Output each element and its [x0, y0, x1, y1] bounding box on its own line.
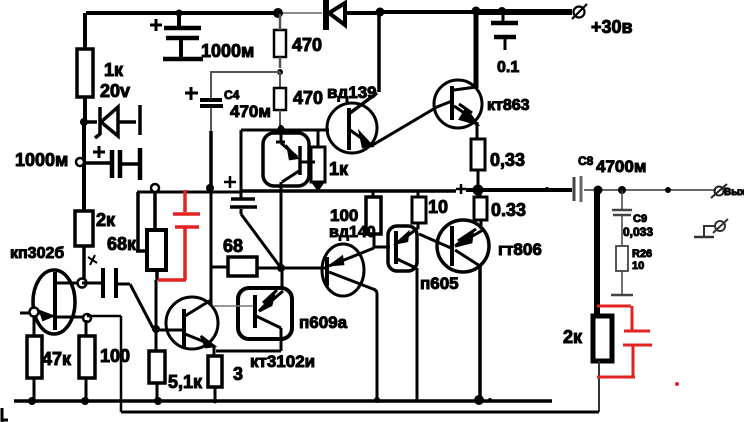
capacitor 1000м top	[150, 13, 203, 59]
resistor 3	[208, 356, 222, 401]
svg-text:R26: R26	[632, 248, 652, 260]
svg-text:10: 10	[428, 197, 448, 217]
svg-text:+30в: +30в	[591, 17, 633, 37]
resistor 100 mid	[366, 191, 390, 247]
svg-text:470: 470	[292, 35, 322, 55]
wire base bus kt3102	[155, 280, 158, 350]
mark corner bottom left	[2, 408, 8, 422]
resistor 47к	[27, 316, 42, 401]
resistor 1к mid	[311, 130, 325, 190]
wire driver diagonal	[371, 101, 452, 146]
node source	[83, 314, 91, 322]
node bottom A	[28, 397, 36, 405]
node top rail B	[273, 8, 283, 18]
svg-text:1к: 1к	[329, 159, 349, 179]
svg-text:100: 100	[100, 346, 130, 366]
wire left bus	[82, 122, 86, 211]
svg-text:C8: C8	[578, 154, 594, 168]
transistor Q1 кп302б	[20, 270, 85, 334]
wire п605 to гт806 base	[419, 234, 451, 248]
wire base link	[157, 329, 183, 332]
svg-text:Вых: Вых	[724, 187, 744, 198]
transistor Q8 п605	[388, 226, 418, 400]
node mid rail open	[151, 184, 159, 192]
svg-text:1000м: 1000м	[15, 150, 68, 170]
capacitor bias below rail	[224, 176, 281, 268]
node bottom B	[81, 397, 89, 405]
svg-text:10: 10	[632, 260, 644, 272]
wire collector bus	[210, 191, 213, 306]
svg-text:20v: 20v	[100, 81, 130, 101]
mark x on wire	[88, 255, 97, 265]
svg-text:0,033: 0,033	[623, 225, 653, 239]
node 470 junction	[277, 69, 283, 75]
svg-text:п609а: п609а	[299, 313, 348, 332]
svg-text:470м: 470м	[230, 102, 271, 121]
transistor Q9 гт806	[437, 220, 489, 400]
svg-text:1000м: 1000м	[201, 41, 254, 61]
transistor Q5 кт863	[434, 80, 482, 128]
transistor Q3 rounded upper	[263, 125, 315, 268]
svg-text:47к: 47к	[42, 349, 72, 369]
wire collector kt863	[474, 13, 479, 88]
terminal +30v	[572, 4, 587, 19]
node top rail E	[498, 7, 506, 15]
svg-text:2к: 2к	[563, 327, 583, 347]
terminal bracket	[694, 219, 728, 237]
transistor Q2 кт3102и	[166, 297, 218, 356]
svg-text:C9: C9	[633, 213, 647, 225]
wire C4 top link	[211, 72, 280, 99]
wire C4 lead lower	[209, 131, 213, 187]
node mid rail C4	[206, 184, 214, 192]
wire bottom feedback line	[121, 411, 599, 414]
wire top rail left	[86, 11, 322, 15]
resistor R26	[616, 246, 628, 294]
wire bottom rail	[14, 399, 552, 403]
svg-text:5,1к: 5,1к	[168, 372, 203, 392]
capacitor C4 470м	[185, 87, 223, 131]
svg-text:0,33: 0,33	[490, 150, 525, 170]
resistor 10	[412, 191, 426, 229]
svg-text:3: 3	[233, 364, 243, 384]
resistor 470 upper	[274, 14, 286, 68]
resistor 100 bottom	[79, 320, 95, 401]
svg-text:гт806: гт806	[498, 240, 542, 259]
ground R26	[611, 294, 633, 297]
node bottom C	[154, 397, 162, 405]
svg-text:п605: п605	[420, 274, 459, 293]
svg-text:100: 100	[330, 206, 358, 225]
svg-text:470: 470	[293, 88, 323, 108]
resistor 5,1к	[149, 350, 165, 401]
resistor 0.33 lower	[474, 190, 487, 229]
wire feedback source	[87, 316, 121, 412]
node mid rail tick	[545, 187, 549, 191]
wire base wire upper tr	[241, 129, 329, 132]
node bottom F	[474, 395, 484, 405]
svg-text:кт863: кт863	[487, 97, 530, 114]
capacitor red left	[158, 190, 200, 280]
capacitor coupling input	[82, 268, 153, 328]
node bottom D	[213, 399, 218, 404]
node top rail C	[376, 8, 385, 17]
node bottom E	[374, 397, 380, 403]
resistor 68	[211, 257, 281, 276]
node out C	[665, 187, 671, 193]
transistor Q7 вд140	[322, 244, 377, 400]
terminal Вых	[711, 184, 727, 198]
resistor 0,33 upper	[471, 139, 485, 190]
transistor Q4 вд139	[327, 13, 379, 153]
capacitor 0.1	[491, 13, 518, 50]
svg-text:1к: 1к	[104, 60, 124, 80]
svg-text:0.1: 0.1	[497, 59, 519, 76]
node zener junction	[80, 118, 88, 126]
resistor 470 lower	[274, 72, 286, 126]
capacitor 1000м left	[76, 146, 140, 180]
mark red dot	[675, 382, 679, 386]
mark plus on rail	[456, 184, 466, 194]
svg-text:кп302б: кп302б	[10, 245, 64, 262]
resistor 68к	[136, 191, 166, 280]
wire emitter kt863	[476, 122, 479, 139]
node base wire	[278, 126, 285, 133]
node top rail D	[472, 7, 481, 16]
node drain	[78, 279, 87, 288]
diode zener D2	[86, 105, 140, 138]
wire mid rail	[137, 190, 572, 192]
node bias junction	[277, 264, 285, 272]
svg-text:0.33: 0.33	[491, 200, 526, 220]
wire top rail right	[380, 10, 572, 14]
wire output rail	[584, 189, 716, 191]
node out A	[594, 186, 603, 195]
node base junction	[152, 325, 160, 333]
resistor 2к left	[75, 211, 93, 281]
resistor R 1k/20v	[77, 13, 93, 122]
svg-text:68: 68	[223, 236, 243, 256]
diode VD top rail	[326, 0, 380, 30]
capacitor C9	[612, 190, 632, 246]
wire vd140 base	[281, 267, 327, 270]
wire bias drop	[240, 130, 243, 191]
transistor Q6 п609а	[213, 268, 292, 351]
capacitor red right	[597, 306, 652, 377]
node out B	[618, 186, 626, 194]
svg-text:2к: 2к	[96, 210, 116, 230]
svg-text:вд139: вд139	[327, 83, 377, 102]
svg-text:кт3102и: кт3102и	[250, 352, 315, 371]
svg-text:C4: C4	[224, 88, 240, 102]
svg-text:4700м: 4700м	[596, 157, 646, 176]
resistor 2к output	[593, 316, 612, 412]
capacitor C8 4700м	[574, 176, 581, 202]
wire 2k drop thick	[594, 191, 600, 316]
node mid rail big	[473, 185, 484, 196]
node top rail A	[176, 10, 183, 17]
node bottom G	[488, 398, 492, 402]
svg-text:68к: 68к	[107, 234, 137, 254]
